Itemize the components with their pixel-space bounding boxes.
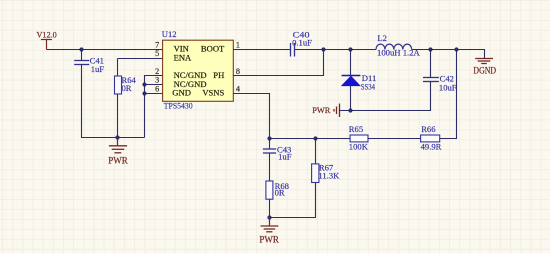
wire: R64 upper lead: [117, 59, 119, 77]
label R64 0R: [122, 75, 137, 93]
wire: C42 upper lead: [430, 50, 432, 78]
node: feedback riser junction: [454, 47, 458, 51]
ground PWR (bottom): [261, 218, 279, 232]
resistor R67: [312, 164, 319, 183]
label R66 49.9R: [421, 124, 442, 152]
svg-text:R66: R66: [421, 124, 436, 134]
wire: bottom rail D11/C42: [340, 82, 431, 111]
svg-text:7: 7: [155, 40, 159, 49]
svg-text:0.1uF: 0.1uF: [292, 38, 312, 48]
wire: PH pin8 riser: [233, 50, 323, 76]
pin names: [172, 44, 225, 98]
svg-text:0R: 0R: [275, 187, 285, 197]
wire: feedback row to R65: [270, 138, 351, 140]
wire: D11 anode lead: [350, 86, 352, 111]
node: pin6 junction: [142, 91, 146, 95]
capacitor C40: [291, 43, 295, 57]
svg-text:PH: PH: [213, 70, 224, 80]
wire: D11 cathode lead: [350, 50, 352, 76]
resistor R64: [115, 76, 122, 94]
svg-text:3: 3: [155, 76, 159, 85]
svg-text:100uH 1.2A: 100uH 1.2A: [377, 47, 421, 57]
inductor L2: [376, 44, 412, 49]
wire: C41 upper lead: [81, 50, 83, 61]
label C43 1uF: [277, 145, 292, 162]
svg-text:1uF: 1uF: [91, 64, 105, 74]
svg-text:10uF: 10uF: [439, 82, 457, 92]
capacitor C43: [263, 149, 276, 153]
wire: C40 to L2: [295, 49, 377, 51]
label R67 11.3K: [318, 163, 340, 181]
ground DGND: [475, 59, 493, 64]
node: D11 bottom junction: [348, 108, 352, 112]
svg-text:1: 1: [236, 40, 240, 49]
power port V12.0: [41, 40, 52, 50]
label D11 SS34: [361, 73, 376, 91]
wire: pin6 stub: [145, 93, 163, 95]
wire: ENA wire to R64: [118, 58, 163, 60]
node: feedback left junction: [267, 136, 271, 140]
svg-text:100K: 100K: [349, 142, 369, 152]
wire: R67 lower lead and bottom rail: [270, 183, 316, 218]
capacitor C42: [423, 78, 439, 82]
wire: VSNS pin4 riser: [233, 94, 269, 139]
node: junction C41 tap: [79, 47, 83, 51]
diode D11: [342, 76, 361, 86]
wire: pins 3-6 tie riser: [145, 76, 163, 138]
svg-text:8: 8: [236, 67, 240, 76]
node: ground rail junction: [115, 135, 119, 139]
wire: C43 upper lead: [269, 139, 271, 150]
wire: pin3 stub: [145, 84, 163, 86]
svg-text:5: 5: [155, 49, 159, 58]
wire: L2 to DGND corner: [412, 50, 485, 59]
svg-text:PWR: PWR: [108, 155, 128, 165]
label C42 10uF: [439, 73, 457, 92]
op-amp U12 TPS5430 body: [163, 40, 234, 101]
resistor R68: [266, 181, 273, 199]
svg-text:PWR: PWR: [312, 106, 331, 115]
svg-text:6: 6: [155, 84, 159, 93]
label L2 100uH 1.2A: [377, 33, 421, 57]
svg-text:DGND: DGND: [473, 66, 496, 76]
node: R67 tap junction: [313, 136, 317, 140]
wire: R65 to R66: [368, 138, 421, 140]
svg-text:TPS5430: TPS5430: [164, 101, 193, 111]
wire: R67 upper lead: [315, 139, 317, 165]
wire: R64 lower lead: [117, 94, 119, 138]
node: C40/PH junction: [321, 47, 325, 51]
resistor R65: [350, 135, 368, 142]
label R65 100K: [349, 124, 369, 152]
wire: R68 lower lead: [269, 199, 271, 217]
svg-text:VSNS: VSNS: [202, 88, 224, 98]
svg-text:R65: R65: [349, 124, 363, 134]
svg-text:2: 2: [155, 67, 159, 76]
svg-text:49.9R: 49.9R: [421, 142, 442, 152]
node: pin3 junction: [142, 82, 146, 86]
svg-text:11.3K: 11.3K: [318, 171, 340, 181]
pin numbers: [155, 40, 240, 93]
ground PWR (left): [109, 138, 127, 153]
svg-text:U12: U12: [162, 29, 177, 39]
label C40 0.1uF: [292, 29, 312, 47]
svg-text:ENA: ENA: [174, 52, 192, 62]
svg-text:V12.0: V12.0: [37, 30, 57, 39]
label C41 1uF: [90, 55, 105, 74]
node: C42 top junction: [428, 47, 432, 51]
wire: BOOT pin1 to C40: [233, 49, 290, 51]
node: D11 top junction: [348, 47, 352, 51]
svg-text:GND: GND: [172, 88, 191, 98]
wire: C41 lower lead to ground rail: [82, 65, 145, 138]
svg-text:L2: L2: [377, 33, 387, 43]
resistor R66: [421, 135, 440, 142]
svg-text:BOOT: BOOT: [201, 44, 225, 54]
label R68 0R: [275, 181, 289, 197]
svg-text:PWR: PWR: [259, 234, 279, 244]
capacitor C41: [74, 61, 89, 65]
wire: R66 to feedback riser: [440, 50, 457, 139]
svg-text:0R: 0R: [122, 83, 132, 93]
svg-text:4: 4: [236, 84, 240, 93]
node: bottom ground junction: [267, 215, 271, 219]
svg-text:SS34: SS34: [361, 81, 376, 91]
wire: C43 to R68: [269, 153, 271, 181]
wire: V12 to pin7 VIN: [47, 49, 163, 51]
svg-text:1uF: 1uF: [278, 152, 292, 162]
ground PWR (middle, rotated): [334, 104, 340, 118]
